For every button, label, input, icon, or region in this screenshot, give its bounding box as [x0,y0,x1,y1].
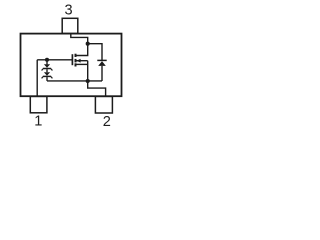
wire drain lead of MOSFET [76,44,88,56]
wire drain node to body diode [88,44,102,61]
node source junction dot [86,79,90,83]
svg-text:1: 1 [34,114,42,130]
wire source to pin 2 [88,81,106,96]
pin 1 tab [30,96,47,112]
wire source rail [47,80,102,82]
pin 2 tab [95,96,112,113]
MOSFET Q1 gate bar [71,54,73,65]
zener diode D2 [42,69,53,81]
zener diode D1 [42,60,53,71]
node gate-zener junction dot [45,58,49,62]
pin 3 label [64,2,72,18]
pin 1 label [34,114,42,130]
MOSFET Q1 body stub with arrow [77,59,88,63]
wire gate to pin 1 [36,60,38,97]
wire pin3 to drain node [71,35,88,44]
pin 2 label [103,114,111,130]
MOSFET Q1 channel bar segments [75,54,77,67]
wire gate [37,59,72,61]
MOSFET Q1 source stub [77,63,88,65]
body diode D3 [97,60,106,81]
node drain junction dot [86,42,90,46]
wire source lead [87,61,89,81]
svg-text:3: 3 [64,2,72,18]
pin 3 tab [62,18,78,33]
package outline [21,34,122,97]
svg-text:2: 2 [103,114,111,130]
